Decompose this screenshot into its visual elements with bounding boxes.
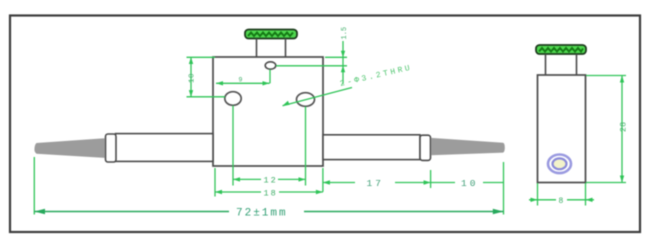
wire: ext line left boot tip [33,157,35,215]
fiber port inner ring [553,158,567,169]
wire: tick at boot start [430,170,432,188]
knob cap (front view) [245,30,297,39]
dimension outer 18 [215,190,323,194]
dimension 72±1mm [34,209,503,215]
svg-text:72±1mm: 72±1mm [236,208,288,220]
wire: green ext line body-top-left [187,56,216,58]
svg-text:1.5: 1.5 [341,27,349,40]
svg-text:12: 12 [264,176,278,186]
dimension side width 8 [529,198,594,202]
fiber port outer ring [548,155,571,174]
dimension inner 12 [233,177,306,181]
dimension 10 (right) [431,182,504,184]
svg-text:18: 18 [264,188,278,198]
side knob post right [576,54,578,75]
leader 2-PHI3.2THRU [283,88,353,106]
wire: centerline left hole down [232,106,234,186]
left boot (grey taper) [34,138,104,158]
wire: ext line side-top [586,75,626,77]
wire: ext line right boot tip [503,162,505,215]
dimension left vertical 10 [189,57,193,97]
body (front view) [213,57,323,166]
svg-text:17: 17 [367,178,384,189]
dimension top horizontal 9 [216,81,270,85]
small top hole [265,62,276,69]
knob post right [285,39,287,58]
wire: centerline right hole down [305,107,307,186]
left mounting hole [225,92,241,106]
svg-text:9: 9 [239,77,243,84]
wire: vertical from small hole to dim [269,69,271,83]
dimension small 1.5 (top right) [276,41,347,84]
svg-text:10: 10 [461,178,478,189]
left ferrule [106,134,117,162]
svg-text:28: 28 [620,121,629,132]
wire: ext line side-bottom [586,182,626,184]
wire: ext line body-right-bottom [322,168,324,192]
wire: ext line side-bottom-left [537,183,539,206]
dimension 17 [323,180,431,184]
right ferrule [420,135,431,160]
right boot (grey taper) [431,138,505,155]
right tube [323,135,420,160]
knob post left [256,39,258,58]
side knob post left [545,54,547,75]
wire: ext line side-bottom-right [585,183,587,206]
wire: ext line body-left-bottom [214,168,216,197]
svg-text:10: 10 [189,73,197,83]
wire: green ext line left-hole-center [187,96,226,98]
right mounting hole [297,93,315,107]
side body [538,75,586,183]
left tube [116,134,214,162]
svg-text:8: 8 [559,197,564,206]
side knob cap [536,45,586,54]
dimension side height 28 [620,76,624,183]
